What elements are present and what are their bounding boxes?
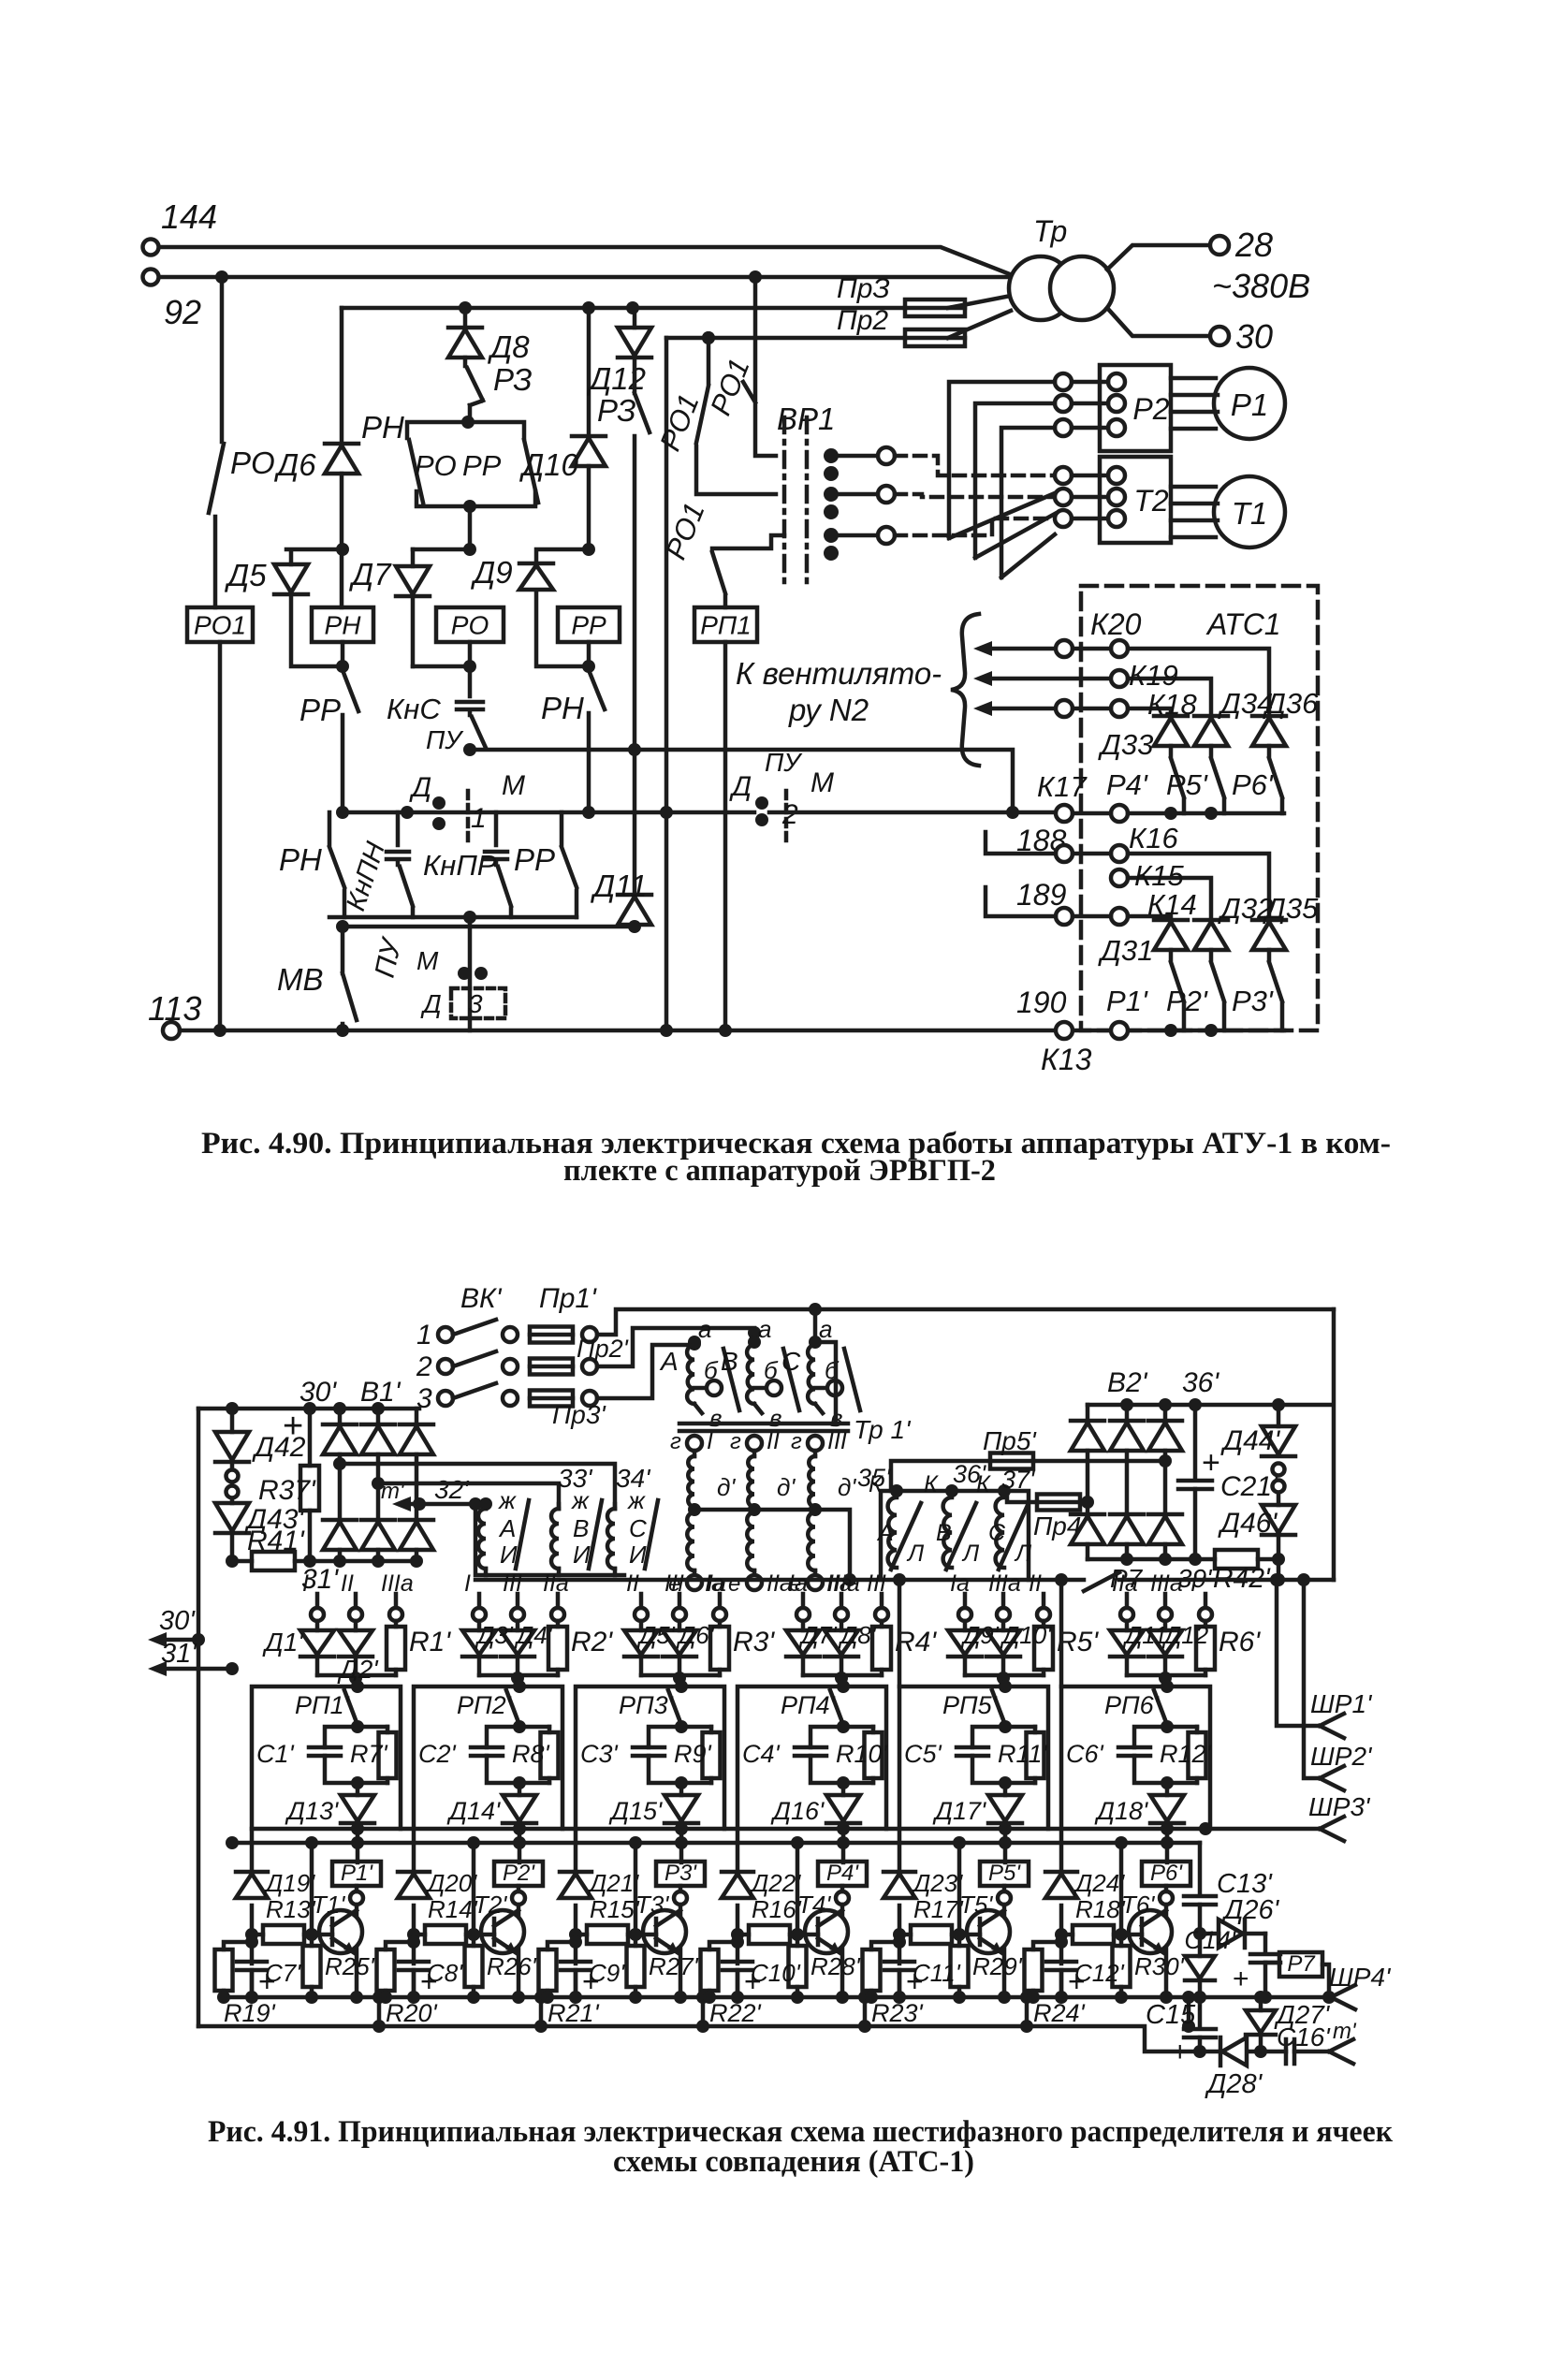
wire К16 row (986, 822, 1269, 918)
svg-text:R2': R2' (571, 1627, 613, 1657)
contact РН below РР (541, 670, 605, 812)
svg-text:РП6': РП6' (1104, 1691, 1160, 1719)
resistor R37' (258, 1409, 319, 1568)
isolator circles (226, 1464, 239, 1503)
diode Д7 (348, 549, 470, 666)
diode Д44' (1220, 1405, 1295, 1456)
capacitor С10' (723, 1959, 801, 2004)
capacitor С21' (1178, 1405, 1278, 1559)
svg-text:РП3': РП3' (619, 1691, 674, 1719)
svg-text:схемы совпадения (АТС-1): схемы совпадения (АТС-1) (613, 2145, 974, 2179)
wire tap 33 (333, 1457, 615, 1509)
contact РР below РН (299, 670, 358, 812)
svg-text:Д23': Д23' (911, 1869, 963, 1897)
relay Р5' (980, 1861, 1029, 2004)
svg-text:Р5': Р5' (988, 1861, 1021, 1886)
svg-text:С14': С14' (1184, 1926, 1236, 1954)
svg-text:R7': R7' (350, 1740, 388, 1768)
svg-text:IIIа: IIIа (988, 1570, 1021, 1597)
diode Д10 (518, 436, 606, 482)
svg-text:R1': R1' (409, 1627, 451, 1657)
svg-text:С9': С9' (589, 1959, 625, 1987)
caption fig 4.91 line1 (208, 2115, 1393, 2149)
wire tap m' (381, 1475, 486, 1511)
svg-text:R8': R8' (512, 1740, 550, 1768)
svg-text:32': 32' (434, 1475, 470, 1504)
svg-text:R30': R30' (1134, 1952, 1185, 1980)
svg-text:Д12: Д12 (586, 361, 646, 396)
svg-text:К17: К17 (1037, 770, 1088, 803)
svg-text:ШР2': ШР2' (1310, 1742, 1373, 1771)
wire row К20 (1056, 640, 1269, 714)
contact КнПН (341, 812, 413, 917)
svg-text:И: И (629, 1540, 647, 1569)
svg-text:Пр2: Пр2 (837, 305, 888, 336)
svg-text:30': 30' (159, 1606, 196, 1636)
svg-text:IIа: IIа (826, 1570, 853, 1597)
cell РП3' frame (576, 1680, 724, 1997)
contact Р5' (1166, 746, 1224, 813)
wire ПУ line (470, 743, 1013, 812)
svg-text:Л: Л (1014, 1540, 1032, 1567)
brace (951, 614, 979, 766)
svg-text:I: I (464, 1570, 471, 1597)
transistor Т5' (959, 1891, 1010, 1953)
svg-text:Д5': Д5' (636, 1621, 676, 1649)
node D-868 (582, 806, 595, 819)
svg-text:ВК': ВК' (460, 1283, 503, 1314)
wire base feed (629, 1836, 642, 1941)
diode Д26' (1200, 1895, 1280, 1948)
svg-text:Д24': Д24' (1073, 1869, 1125, 1897)
diode Д18' (1094, 1725, 1184, 1862)
capacitor С3' / resistor R9' (580, 1720, 721, 1789)
transistor Т3' (635, 1891, 686, 1953)
svg-text:В1': В1' (360, 1377, 402, 1408)
svg-text:II: II (767, 1428, 780, 1454)
svg-text:Д13': Д13' (285, 1797, 339, 1825)
wire rail link cell3 (696, 1991, 709, 2033)
bridge В1' column x445 (400, 1409, 433, 1561)
bridge В2' column x1162 (1071, 1405, 1104, 1559)
contact РН cluster (279, 812, 344, 917)
contact РР of pair (462, 440, 538, 503)
svg-text:Тр 1': Тр 1' (854, 1415, 912, 1444)
svg-text:МВ: МВ (277, 962, 324, 997)
svg-text:R27': R27' (649, 1952, 699, 1980)
svg-text:31': 31' (161, 1639, 197, 1669)
wire net144 top bus (159, 247, 1010, 274)
diode Д27' (1246, 1991, 1331, 2058)
label 190 (1016, 986, 1067, 1019)
svg-text:Д36: Д36 (1263, 687, 1319, 720)
svg-text:Д12: Д12 (1161, 1621, 1209, 1649)
fuse Пр3 (837, 273, 965, 316)
svg-text:ПрЗ: ПрЗ (837, 273, 890, 304)
winding block right edge (815, 1342, 836, 1423)
svg-text:Д22': Д22' (749, 1869, 801, 1897)
svg-text:R18': R18' (1075, 1895, 1126, 1923)
svg-text:R23': R23' (871, 1999, 924, 2027)
svg-text:К20: К20 (1090, 607, 1142, 641)
svg-text:Д3': Д3' (475, 1621, 514, 1649)
diode Д6 (273, 444, 358, 482)
arrow out 2 (973, 671, 1111, 686)
capacitor С1' / resistor R7' (256, 1720, 397, 1789)
svg-text:КнПР: КнПР (423, 849, 497, 882)
resistor R23' (863, 1935, 924, 2027)
svg-text:д': д' (838, 1473, 856, 1501)
transformer Тр (1009, 214, 1114, 320)
bridge В1' column x404 (361, 1409, 395, 1561)
resistor R29' (951, 1935, 1023, 2004)
diode Д15' (608, 1725, 698, 1862)
svg-text:б: б (764, 1356, 779, 1384)
label Пр2' (577, 1335, 629, 1363)
svg-text:III: III (664, 1570, 684, 1597)
svg-text:д': д' (777, 1473, 796, 1501)
svg-text:Д: Д (409, 772, 431, 803)
svg-text:А: А (659, 1347, 679, 1376)
node C-587 (413, 548, 470, 552)
relay Р6' (1142, 1861, 1190, 2004)
wire bridge bottom bus (301, 1555, 423, 1595)
diode Д23' (884, 1869, 963, 1898)
wire cell6 feed (1059, 1580, 1064, 1686)
wire tap 34 (372, 1477, 559, 1509)
fuse Пр3' (530, 1391, 597, 1407)
diode Д24' (1045, 1869, 1125, 1898)
diode Д11 (590, 750, 651, 927)
diode Д16' (770, 1725, 860, 1862)
svg-text:Д15': Д15' (608, 1797, 663, 1825)
svg-text:R26': R26' (487, 1952, 537, 1980)
svg-text:Т1: Т1 (1232, 496, 1268, 531)
wire rail link cell4 (858, 1991, 871, 2033)
svg-text:Р2': Р2' (1166, 985, 1208, 1017)
svg-text:II: II (341, 1570, 354, 1597)
svg-text:R37': R37' (258, 1475, 316, 1506)
svg-text:I: I (302, 1570, 309, 1597)
svg-text:Iа: Iа (705, 1570, 724, 1597)
contact РП4' (781, 1690, 843, 1725)
diode Д20' (398, 1869, 477, 1898)
contact ПУ-Д-М 1 (409, 725, 525, 847)
svg-text:R28': R28' (811, 1952, 861, 1980)
svg-text:В2': В2' (1107, 1367, 1148, 1398)
svg-text:R13': R13' (266, 1895, 316, 1923)
capacitor С6' / resistor R12' (1066, 1720, 1212, 1789)
svg-text:IIIа: IIIа (381, 1570, 414, 1597)
resistor R42' (1213, 1537, 1285, 1594)
svg-text:Д: Д (420, 989, 442, 1018)
wire 1688 bus (475, 1572, 1334, 1591)
contact Р3' (1232, 950, 1282, 1030)
bracket lower pair (416, 491, 535, 513)
winding ж-В (551, 1486, 602, 1575)
resistor R27' (627, 1935, 699, 2004)
svg-text:R24': R24' (1033, 1999, 1086, 2027)
svg-text:II: II (1029, 1570, 1042, 1597)
wire to ШР1' (1277, 1580, 1373, 1738)
contact РП3' (619, 1690, 681, 1725)
wire base feed (953, 1836, 966, 1941)
contact Р6' (1232, 746, 1282, 813)
resistor R14' (407, 1895, 478, 1944)
svg-text:К19: К19 (1129, 659, 1178, 692)
diode Д42' (215, 1409, 312, 1463)
capacitor С14' (1184, 1926, 1280, 2004)
svg-text:R10': R10' (836, 1740, 888, 1768)
svg-text:КнС: КнС (387, 693, 441, 725)
wire column D mid (582, 466, 595, 556)
svg-text:Д11: Д11 (1122, 1621, 1167, 1649)
capacitor С8' (399, 1959, 463, 2004)
svg-text:ПУ: ПУ (765, 748, 803, 777)
svg-text:плекте с аппаратурой ЭРВГП-2: плекте с аппаратурой ЭРВГП-2 (563, 1154, 996, 1188)
svg-text:г: г (670, 1429, 681, 1454)
wire base feed (791, 1836, 804, 1941)
svg-text:С12': С12' (1074, 1959, 1125, 1987)
svg-text:М: М (502, 770, 525, 801)
dashed bar ВР1 right (805, 417, 810, 584)
relay РР (558, 607, 620, 642)
motor Р1 (1171, 368, 1285, 439)
resistor R24' (1025, 1935, 1086, 2027)
capacitor С9' (561, 1959, 625, 2004)
label АТС1 (1205, 607, 1281, 641)
svg-text:Пр1': Пр1' (539, 1283, 597, 1314)
cell РП1' frame (252, 1680, 401, 1997)
svg-text:К вентилято-: К вентилято- (736, 656, 942, 691)
block Т2 (1055, 457, 1171, 543)
label ВР1 (777, 402, 835, 436)
svg-text:R19': R19' (224, 1999, 276, 2027)
wire column A upper (220, 277, 225, 442)
contact РП2' (457, 1690, 519, 1725)
wire rail link cell5 (1020, 1991, 1033, 2033)
dashed bar ВР1 left (782, 417, 787, 584)
wire ВР1 row1 (839, 447, 1055, 475)
svg-text:Р6': Р6' (1232, 768, 1274, 801)
svg-text:ШР3': ШР3' (1308, 1792, 1371, 1821)
svg-text:30': 30' (299, 1377, 337, 1408)
svg-text:С4': С4' (742, 1740, 781, 1768)
resistor R22' (701, 1935, 762, 2027)
switch ВК' pole 2 (416, 1351, 518, 1382)
svg-text:+: + (1233, 1964, 1249, 1994)
svg-text:РЗ: РЗ (493, 362, 533, 397)
capacitor С2' / resistor R8' (418, 1720, 559, 1789)
svg-text:РН: РН (325, 611, 362, 640)
svg-text:Д16': Д16' (770, 1797, 825, 1825)
svg-text:К16: К16 (1129, 822, 1179, 854)
svg-text:I: I (707, 1428, 713, 1454)
contact ПУ-Д-М 3 (370, 927, 505, 1030)
diode Д36 (1252, 687, 1319, 746)
svg-text:30: 30 (1235, 317, 1273, 356)
block К windings (881, 1491, 1029, 1580)
capacitor С4' / resistor R10' (742, 1720, 888, 1789)
svg-text:Р7: Р7 (1287, 1951, 1316, 1977)
cell РП2' frame (414, 1680, 562, 1997)
svg-text:С8': С8' (427, 1959, 463, 1987)
wire rail link cell6 (1182, 1991, 1195, 2033)
resistor R21' (539, 1935, 600, 2027)
wire bus 1954 ШР3' (252, 1792, 1371, 1841)
svg-text:РП1': РП1' (295, 1691, 350, 1719)
relay Р4' (818, 1861, 867, 2004)
relay РН (312, 607, 373, 642)
fuse Пр2 (837, 305, 965, 346)
svg-text:Т3': Т3' (635, 1891, 669, 1919)
svg-text:Iа: Iа (950, 1570, 970, 1597)
svg-text:2: 2 (781, 799, 798, 830)
svg-text:РП4': РП4' (781, 1691, 836, 1719)
wire rail 2134 ШР4' (224, 1963, 1392, 2009)
wire Д43 to R41 (226, 1535, 239, 1675)
svg-text:R16': R16' (752, 1895, 802, 1923)
relay Р7 (1265, 1951, 1336, 2004)
svg-text:Д17': Д17' (932, 1797, 986, 1825)
contact РО of pair (409, 440, 457, 503)
wire column D top (587, 308, 591, 436)
svg-text:И: И (500, 1540, 518, 1569)
wire bottom rail (180, 1022, 1284, 1039)
svg-text:Д20': Д20' (425, 1869, 477, 1897)
motor Т1 (1171, 476, 1285, 548)
capacitor С15' (1146, 1997, 1216, 2067)
label Пр3' (552, 1400, 606, 1429)
svg-text:R41': R41' (247, 1526, 305, 1556)
svg-text:ШР4': ШР4' (1329, 1963, 1392, 1992)
svg-text:Т2: Т2 (1133, 484, 1169, 518)
resistor R13' (245, 1895, 316, 1944)
svg-text:РР: РР (571, 611, 606, 640)
svg-text:Пр3': Пр3' (552, 1400, 606, 1429)
svg-text:IIа: IIа (1112, 1570, 1138, 1597)
svg-text:Д10': Д10' (1000, 1621, 1052, 1649)
svg-text:Д19': Д19' (263, 1869, 315, 1897)
svg-text:Д31: Д31 (1098, 934, 1153, 967)
contact РП1' (295, 1690, 358, 1725)
svg-text:92: 92 (164, 293, 201, 331)
contact Р4' (1106, 746, 1184, 813)
capacitor С11' (884, 1959, 961, 2004)
label РН (361, 410, 404, 445)
svg-text:Р3': Р3' (1232, 985, 1274, 1017)
svg-text:37': 37' (1001, 1466, 1035, 1494)
svg-text:Р1': Р1' (341, 1861, 373, 1886)
contact ПУ-Д-М 2 (729, 748, 834, 842)
wire column F (660, 338, 673, 1037)
svg-text:2: 2 (416, 1351, 432, 1382)
wire row К18 (1056, 688, 1198, 721)
svg-text:R17': R17' (913, 1895, 964, 1923)
svg-text:Д: Д (729, 771, 752, 802)
svg-text:Д35: Д35 (1263, 892, 1319, 925)
fuse Пр1' (530, 1327, 597, 1343)
svg-text:ШР1': ШР1' (1310, 1689, 1373, 1718)
wire К15 row (1016, 859, 1211, 918)
svg-text:М: М (416, 946, 439, 975)
winding К-А (869, 1471, 925, 1570)
wires P2-T2 braid (949, 382, 1055, 577)
diode Д5 (224, 543, 349, 666)
relay Р1' (332, 1861, 381, 2004)
wire К14 row (986, 887, 1197, 925)
svg-text:РП5': РП5' (942, 1691, 998, 1719)
svg-text:R20': R20' (386, 1999, 438, 2027)
svg-text:28: 28 (1234, 226, 1273, 264)
contact РП5' (942, 1690, 1005, 1725)
arrow 31' (148, 1639, 232, 1676)
wire column E top (633, 308, 637, 328)
resistor R26' (465, 1935, 537, 2004)
wire R42 to edge (1258, 1557, 1278, 1562)
svg-text:РО1: РО1 (194, 611, 246, 640)
wire base feed (467, 1836, 480, 1941)
winding secondary II (728, 1428, 796, 1597)
relay Р2' (494, 1861, 543, 2004)
resistor R17' (893, 1895, 964, 1944)
block Р2 (1055, 365, 1171, 451)
labels 35 36 37 (857, 1460, 1035, 1494)
wire rail 2165 (198, 2026, 1220, 2051)
svg-text:R3': R3' (733, 1627, 775, 1657)
svg-text:113: 113 (148, 989, 201, 1028)
svg-text:189: 189 (1016, 878, 1067, 912)
svg-text:С15': С15' (1146, 2000, 1202, 2030)
svg-text:РО: РО (415, 449, 457, 482)
label ~380V (1212, 267, 1310, 305)
contact РР cluster (514, 812, 577, 917)
svg-text:Д42': Д42' (252, 1432, 312, 1463)
svg-text:Т1': Т1' (312, 1891, 345, 1919)
wire row2 feed (597, 1326, 761, 1366)
svg-text:Р4': Р4' (826, 1861, 859, 1886)
wire left rail (192, 1409, 205, 2026)
arrow out 3 (973, 701, 1056, 716)
svg-text:е: е (728, 1571, 740, 1597)
svg-text:Д8': Д8' (838, 1621, 877, 1649)
relay Р3' (656, 1861, 705, 2004)
diode Д8 (448, 328, 530, 364)
wire to 30 (1107, 308, 1211, 336)
wire cluster bottom (329, 911, 577, 927)
svg-text:г: г (791, 1429, 802, 1454)
contact КнПР (423, 812, 511, 917)
wire 868 line right (769, 806, 1056, 819)
bridge В2' column x1245 (1148, 1405, 1182, 1559)
svg-text:R14': R14' (428, 1895, 478, 1923)
contact Р1' (1106, 950, 1184, 1030)
contact РЗ upper (465, 358, 533, 422)
svg-text:~380В: ~380В (1212, 267, 1310, 305)
winding secondary III (789, 1428, 860, 1597)
svg-text:33': 33' (558, 1464, 593, 1493)
contact РО (209, 444, 275, 607)
svg-text:С1': С1' (256, 1740, 295, 1768)
svg-text:а: а (819, 1315, 832, 1343)
svg-text:Д9': Д9' (960, 1621, 1000, 1649)
wire bus 1969 (226, 1836, 1200, 1849)
svg-text:1: 1 (416, 1320, 432, 1351)
diode group Д7'/Д8'/R4' (786, 1570, 937, 1686)
wire д' bus (688, 1503, 856, 1586)
contact МВ (277, 927, 357, 1037)
block ж windings (475, 1497, 624, 1575)
